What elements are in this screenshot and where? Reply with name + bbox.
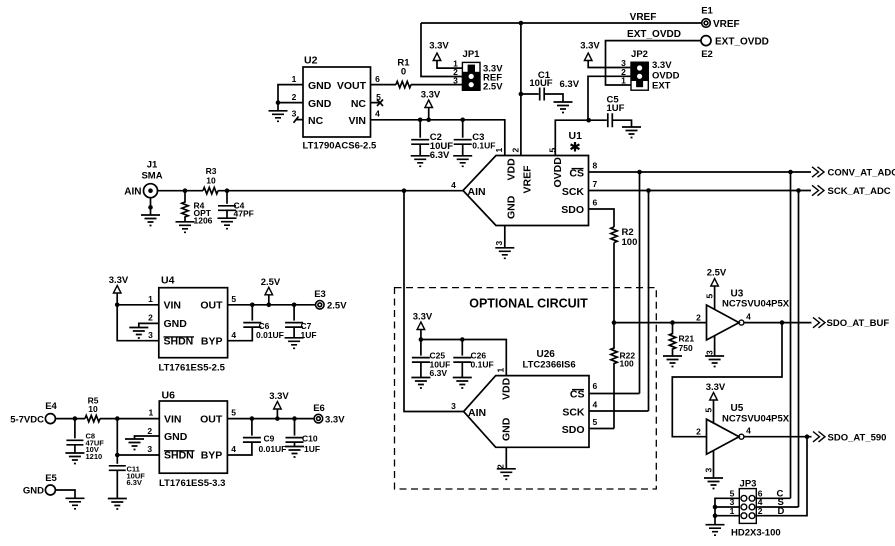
wire down to SHDN	[117, 419, 159, 455]
wire CS vertical to U26	[639, 172, 641, 394]
svg-text:VREF: VREF	[713, 19, 740, 30]
svg-text:5: 5	[704, 294, 714, 299]
junction C7	[292, 303, 297, 308]
wire AIN main	[158, 190, 464, 192]
junction SCK / U26	[646, 188, 651, 193]
capacitor C5 1UF	[607, 95, 632, 128]
svg-text:3.3V: 3.3V	[421, 90, 441, 101]
svg-text:3: 3	[147, 444, 152, 454]
ground C25	[411, 378, 430, 389]
ground U1	[495, 248, 514, 258]
power 3.3V at U4	[113, 286, 121, 294]
power 2.5V at U3	[711, 279, 719, 287]
wire U3 output	[744, 322, 812, 324]
wire EXT_OVDD	[606, 41, 702, 85]
svg-text:VDD: VDD	[506, 158, 518, 181]
power 3.3V at JP2	[584, 53, 592, 61]
node SCK_AT_ADC	[812, 185, 891, 197]
ground C10	[285, 447, 304, 458]
svg-text:1210: 1210	[86, 452, 103, 461]
svg-text:1: 1	[621, 76, 626, 86]
junction VREF rail / U1 VREF	[519, 21, 524, 26]
svg-text:VDD: VDD	[501, 377, 513, 400]
wire U6 OUT rail	[227, 418, 313, 420]
svg-text:2: 2	[696, 312, 701, 322]
svg-text:0.1UF: 0.1UF	[472, 141, 495, 151]
svg-text:C10: C10	[302, 434, 318, 444]
svg-text:100: 100	[622, 237, 638, 248]
wire 2.5V stem	[268, 295, 270, 305]
svg-text:GND: GND	[164, 318, 188, 330]
svg-text:4: 4	[375, 109, 380, 119]
wire U6 GND	[135, 436, 160, 439]
wire J1 shell stem	[150, 198, 152, 215]
power 3.3V at U5	[710, 393, 718, 401]
svg-text:5: 5	[703, 408, 713, 413]
svg-text:U6: U6	[162, 390, 176, 402]
capacitor C26 0.1UF	[453, 340, 493, 378]
wire VREF rail to JP1 pin2	[421, 23, 462, 77]
wire R5 to U6 VIN	[100, 418, 159, 420]
capacitor C9 0.01UF	[227, 419, 286, 455]
terminal E6 3.3V	[313, 403, 345, 426]
wire 3.3V rail to U26 VDD	[421, 340, 506, 376]
svg-text:3.3V: 3.3V	[706, 382, 726, 393]
wire SCK vertical to U26	[648, 191, 650, 412]
svg-text:AIN: AIN	[124, 187, 141, 198]
svg-text:E4: E4	[45, 401, 57, 412]
regulator U6 LT1761ES5-3.3	[147, 390, 236, 490]
svg-text:1: 1	[148, 294, 153, 304]
svg-text:3: 3	[494, 241, 504, 246]
svg-text:4: 4	[746, 312, 751, 322]
node CONV_AT_ADC	[812, 167, 895, 179]
svg-text:3: 3	[292, 109, 297, 119]
svg-text:47PF: 47PF	[234, 209, 254, 219]
wire buffer node to U3 input	[614, 322, 707, 324]
wire SDO to R2	[589, 209, 615, 227]
svg-text:VIN: VIN	[164, 413, 182, 425]
svg-text:1: 1	[495, 368, 505, 373]
svg-text:SMA: SMA	[141, 171, 162, 182]
wire CS net	[589, 171, 812, 173]
svg-text:5: 5	[231, 294, 236, 304]
svg-text:8: 8	[593, 161, 598, 171]
svg-text:6.3V: 6.3V	[127, 478, 142, 487]
power 3.3V at C25	[417, 322, 425, 330]
svg-text:10: 10	[88, 404, 98, 414]
junction C10	[292, 416, 297, 421]
svg-text:6.3V: 6.3V	[430, 368, 448, 378]
wire JP2 pin2 to OVDD node	[588, 76, 631, 120]
wire JP3 pin2 D	[756, 437, 807, 516]
svg-text:OPTIONAL CIRCUIT: OPTIONAL CIRCUIT	[469, 297, 588, 311]
ground C4	[218, 218, 237, 229]
svg-text:VIN: VIN	[348, 115, 366, 127]
svg-text:LT1790ACS6-2.5: LT1790ACS6-2.5	[303, 141, 377, 152]
inverter U3 NC7SVU04P5X	[696, 289, 790, 356]
svg-text:2.5V: 2.5V	[261, 277, 281, 288]
svg-text:2.5V: 2.5V	[327, 301, 347, 312]
svg-text:SDO_AT_BUF: SDO_AT_BUF	[827, 318, 890, 329]
wire 3.3V stem	[420, 330, 422, 340]
junction U4 VIN	[115, 303, 120, 308]
svg-text:0.01UF: 0.01UF	[256, 330, 284, 340]
ground C1	[554, 102, 573, 113]
svg-text:6.3V: 6.3V	[430, 150, 450, 161]
svg-text:NC7SVU04P5X: NC7SVU04P5X	[722, 299, 790, 310]
junction CS / JP3 C	[788, 170, 793, 175]
wire U3 pin3 stem	[714, 336, 716, 356]
svg-text:NC7SVU04P5X: NC7SVU04P5X	[722, 414, 790, 425]
ground U6	[125, 439, 144, 450]
svg-text:0.01UF: 0.01UF	[259, 444, 287, 454]
svg-text:U2: U2	[304, 55, 318, 67]
inverter U5 NC7SVU04P5X	[696, 403, 790, 473]
header JP2	[621, 49, 679, 91]
svg-text:SCK: SCK	[562, 406, 585, 418]
junction C2	[418, 118, 423, 123]
svg-text:3: 3	[704, 350, 714, 355]
capacitor C4 47PF	[218, 191, 254, 219]
ground JP3	[706, 525, 725, 536]
optional circuit dashed box	[395, 288, 657, 489]
svg-text:4: 4	[593, 400, 598, 410]
wire U3 pin5 stem	[714, 286, 716, 310]
ground C8	[65, 453, 84, 464]
wire U5 output	[744, 436, 812, 438]
terminal E2 EXT_OVDD	[701, 36, 769, 60]
wire U2 VOUT to R1	[371, 84, 397, 86]
ground U2	[269, 111, 288, 122]
junction R4	[183, 188, 188, 193]
svg-text:2.5V: 2.5V	[707, 268, 727, 279]
wire OVDD node	[555, 120, 607, 155]
ground C5	[622, 127, 641, 138]
svg-text:C9: C9	[264, 434, 275, 444]
svg-text:NC: NC	[351, 98, 367, 110]
svg-text:4: 4	[231, 444, 236, 454]
terminal E3 2.5V	[314, 289, 347, 312]
svg-text:SCK_AT_ADC: SCK_AT_ADC	[828, 186, 891, 197]
resistor R2 100	[611, 227, 638, 248]
power 2.5V at U4 out	[265, 287, 273, 295]
ground U26	[497, 469, 516, 480]
svg-text:2: 2	[696, 426, 701, 436]
svg-text:GND: GND	[164, 431, 188, 443]
svg-text:3.3V: 3.3V	[269, 391, 289, 402]
wire U2 gnd stem	[277, 103, 279, 111]
svg-text:EXT_OVDD: EXT_OVDD	[715, 37, 769, 48]
svg-text:3.3V: 3.3V	[429, 41, 449, 52]
wire 3.3V stem	[428, 108, 430, 120]
junction C4	[225, 188, 230, 193]
capacitor C8 47UF 10V 1210	[66, 419, 104, 461]
svg-text:BYP: BYP	[201, 450, 223, 462]
svg-text:OVDD: OVDD	[552, 157, 564, 188]
junction C11/SHDN	[115, 416, 120, 421]
ADC U26 LTC2366IS6	[451, 349, 597, 469]
junction JP3 pin1	[713, 513, 718, 518]
ground U3	[705, 356, 724, 367]
svg-text:GND: GND	[506, 195, 518, 219]
svg-text:R3: R3	[206, 166, 217, 176]
header JP1	[453, 49, 503, 92]
junction R21	[670, 320, 675, 325]
svg-text:JP1: JP1	[463, 49, 481, 60]
svg-text:3: 3	[453, 75, 458, 85]
svg-text:OUT: OUT	[200, 300, 223, 312]
wire R2 to buffer node	[613, 243, 615, 323]
svg-text:OUT: OUT	[200, 413, 223, 425]
wire U3 out to U5 in	[672, 323, 782, 437]
svg-text:7: 7	[593, 179, 598, 189]
svg-text:U5: U5	[731, 403, 744, 414]
svg-text:3.3V: 3.3V	[580, 41, 600, 52]
svg-text:EXT: EXT	[652, 80, 671, 91]
junction U2 gnd	[276, 100, 281, 105]
wire 3.3V stem	[276, 409, 278, 419]
svg-text:3: 3	[148, 330, 153, 340]
junction C3	[460, 118, 465, 123]
svg-text:JP3: JP3	[740, 479, 757, 490]
junction OVDD	[586, 118, 591, 123]
ground R21	[663, 356, 682, 367]
svg-text:6: 6	[593, 381, 598, 391]
resistor R22 100	[611, 323, 636, 429]
svg-text:GND: GND	[308, 80, 332, 92]
svg-text:5: 5	[593, 417, 598, 427]
svg-text:LT1761ES5-2.5: LT1761ES5-2.5	[159, 363, 226, 374]
svg-text:AIN: AIN	[468, 186, 486, 198]
junction 2.5V arrow	[267, 303, 272, 308]
regulator U4 LT1761ES5-2.5	[148, 275, 236, 374]
svg-text:VOUT: VOUT	[337, 80, 367, 92]
junction buffer node	[612, 320, 617, 325]
ground E5	[66, 498, 85, 509]
wire JP3 left pins to ground	[715, 498, 739, 524]
resistor R21 750	[669, 323, 694, 356]
power 3.3V at JP1	[433, 53, 441, 61]
svg-text:3.3V: 3.3V	[325, 415, 345, 426]
svg-text:0.1UF: 0.1UF	[471, 359, 494, 369]
svg-text:1UF: 1UF	[304, 444, 320, 454]
capacitor C6 0.01UF	[228, 305, 284, 341]
wire E5 to ground	[55, 490, 75, 498]
svg-text:6.3V: 6.3V	[560, 79, 580, 90]
capacitor C3 0.1UF	[454, 120, 496, 156]
wire U1 VREF vertical	[520, 23, 522, 156]
junction SCK / JP3 S	[796, 188, 801, 193]
svg-text:LTC2366IS6: LTC2366IS6	[523, 360, 576, 371]
svg-text:E3: E3	[314, 289, 326, 300]
svg-text:HD2X3-100: HD2X3-100	[731, 528, 781, 539]
capacitor C1 10UF 6.3V	[521, 70, 580, 102]
ground C2	[411, 156, 430, 167]
wire R1 to JP1 pin3	[411, 84, 462, 86]
svg-text:3: 3	[451, 401, 456, 411]
svg-text:3.3V: 3.3V	[652, 60, 672, 71]
svg-text:GND: GND	[23, 486, 44, 497]
svg-text:SCK: SCK	[562, 186, 585, 198]
svg-text:VREF: VREF	[630, 12, 657, 23]
svg-text:BYP: BYP	[201, 336, 223, 348]
junction SDO_AT_590 / JP3 D	[805, 434, 810, 439]
svg-text:4: 4	[746, 426, 751, 436]
wire U26 SCK	[589, 410, 649, 412]
header JP3 HD2X3-100	[730, 479, 785, 539]
svg-text:2: 2	[147, 426, 152, 436]
node SDO_AT_590	[813, 432, 886, 444]
wire U5 pin3 stem	[713, 450, 715, 478]
ground C26	[453, 378, 472, 389]
resistor R3 10	[203, 166, 218, 194]
svg-text:U26: U26	[537, 349, 556, 360]
reference U2 LT1790ACS6-2.5	[292, 55, 382, 152]
ground C11	[108, 499, 127, 510]
ground R4	[176, 222, 195, 233]
wire U2 pin1 GND	[278, 85, 303, 103]
wire U26 SDO to R22	[589, 428, 614, 430]
wire U4 GND	[139, 323, 159, 327]
svg-text:SDO: SDO	[562, 424, 585, 436]
ADC U1 LTC2366	[451, 130, 597, 246]
svg-text:VREF: VREF	[522, 165, 534, 194]
wire E4 to R5	[55, 418, 85, 420]
wire JP3 S vertical	[798, 191, 800, 508]
wire 3.3V rail to U1 VDD	[371, 120, 505, 156]
svg-text:GND: GND	[308, 98, 332, 110]
svg-text:E5: E5	[45, 473, 57, 484]
power 3.3V at C2	[425, 100, 433, 108]
svg-text:2: 2	[292, 92, 297, 102]
svg-text:4: 4	[231, 330, 236, 340]
svg-text:5: 5	[231, 408, 236, 418]
junction CS / U26	[637, 170, 642, 175]
connector J1 SMA	[124, 160, 162, 198]
svg-text:6: 6	[375, 74, 380, 84]
terminal E5 GND	[23, 473, 58, 497]
svg-text:U1: U1	[569, 130, 583, 142]
capacitor C10 1UF	[286, 419, 321, 454]
junction JP3 pin3	[713, 505, 718, 510]
junction C8	[73, 416, 78, 421]
junction U3 out	[780, 320, 785, 325]
wire 3.3V to JP2 pin3	[588, 61, 631, 68]
junction J1 shell	[148, 205, 153, 210]
wire 3.3V to JP1 pin1	[437, 61, 462, 69]
svg-text:2.5V: 2.5V	[483, 81, 503, 92]
wire SCK net	[589, 190, 812, 192]
wire JP3 pin6 C	[756, 497, 790, 499]
svg-text:LT1761ES5-3.3: LT1761ES5-3.3	[159, 478, 225, 489]
U2 pin5 NC stub	[371, 100, 384, 107]
svg-text:E1: E1	[701, 6, 713, 17]
svg-text:3.3V: 3.3V	[109, 275, 129, 286]
junction 3.3V arrow	[275, 416, 280, 421]
U2 pin3 NC stub	[294, 117, 304, 123]
svg-text:GND: GND	[501, 417, 513, 441]
capacitor C11 10UF 6.3V	[109, 455, 145, 498]
junction C25	[419, 337, 424, 342]
svg-text:SDO_AT_590: SDO_AT_590	[828, 432, 887, 443]
junction SHDN row	[115, 453, 120, 458]
terminal E1 VREF	[701, 6, 739, 31]
power 3.3V at U6 out	[274, 402, 282, 410]
svg-text:AIN: AIN	[468, 407, 486, 419]
svg-text:EXT_OVDD: EXT_OVDD	[627, 29, 681, 40]
node SDO_AT_BUF	[813, 317, 889, 329]
svg-text:U4: U4	[161, 275, 175, 287]
svg-text:10UF: 10UF	[529, 78, 552, 89]
svg-text:NC: NC	[308, 115, 324, 127]
junction C6	[250, 303, 255, 308]
capacitor C7 1UF	[285, 305, 316, 340]
ground U5	[704, 478, 723, 489]
resistor R4 OPT 1206	[182, 191, 213, 226]
wire U26 CS	[589, 393, 640, 395]
junction 3.3V stem	[426, 118, 431, 123]
wire U4 OUT rail	[228, 304, 316, 306]
svg-text:JP2: JP2	[631, 49, 648, 60]
svg-text:SDO: SDO	[561, 204, 584, 216]
junction U26 AIN branch	[402, 188, 407, 193]
svg-text:4: 4	[451, 180, 456, 190]
wire JP3 C vertical	[790, 172, 792, 498]
svg-text:3: 3	[703, 468, 713, 473]
svg-text:1: 1	[494, 148, 504, 153]
wire 3.3V to U4 VIN and SHDN	[117, 293, 159, 341]
junction C9	[250, 416, 255, 421]
svg-text:1: 1	[292, 74, 297, 84]
wire JP3 pin4 S	[756, 506, 798, 508]
svg-text:3.3V: 3.3V	[413, 312, 433, 323]
capacitor C25 10UF 6.3V	[412, 340, 450, 379]
wire U1 GND stem	[504, 226, 506, 248]
wire VREF rail	[421, 22, 702, 24]
svg-text:10: 10	[206, 176, 216, 186]
svg-text:5: 5	[548, 148, 558, 153]
wire U26 GND stem	[505, 447, 507, 468]
svg-text:750: 750	[679, 343, 693, 353]
svg-text:6: 6	[593, 198, 598, 208]
resistor R5 10	[85, 396, 100, 422]
svg-text:1: 1	[149, 408, 154, 418]
svg-text:2: 2	[148, 313, 153, 323]
svg-text:1206: 1206	[194, 216, 213, 226]
wire U26 AIN branch	[404, 191, 464, 412]
junction C26	[460, 337, 465, 342]
svg-text:CONV_AT_ADC: CONV_AT_ADC	[828, 168, 895, 179]
terminal E4 5-7VDC	[10, 401, 57, 426]
svg-text:2: 2	[511, 148, 521, 153]
svg-text:VIN: VIN	[164, 300, 182, 312]
capacitor C2 10UF 6.3V	[411, 120, 453, 161]
svg-text:E2: E2	[701, 49, 713, 60]
resistor R1 0	[396, 81, 411, 87]
ground C3	[453, 156, 472, 167]
ground U4	[129, 328, 148, 339]
svg-text:J1: J1	[147, 160, 158, 171]
ground C7	[285, 338, 304, 349]
junction C1 tap	[519, 92, 524, 97]
svg-text:100: 100	[620, 359, 634, 369]
svg-text:1UF: 1UF	[607, 103, 625, 114]
svg-text:E6: E6	[313, 403, 325, 414]
svg-text:5-7VDC: 5-7VDC	[10, 415, 44, 426]
ground J1	[141, 215, 160, 226]
svg-text:0: 0	[401, 67, 406, 78]
